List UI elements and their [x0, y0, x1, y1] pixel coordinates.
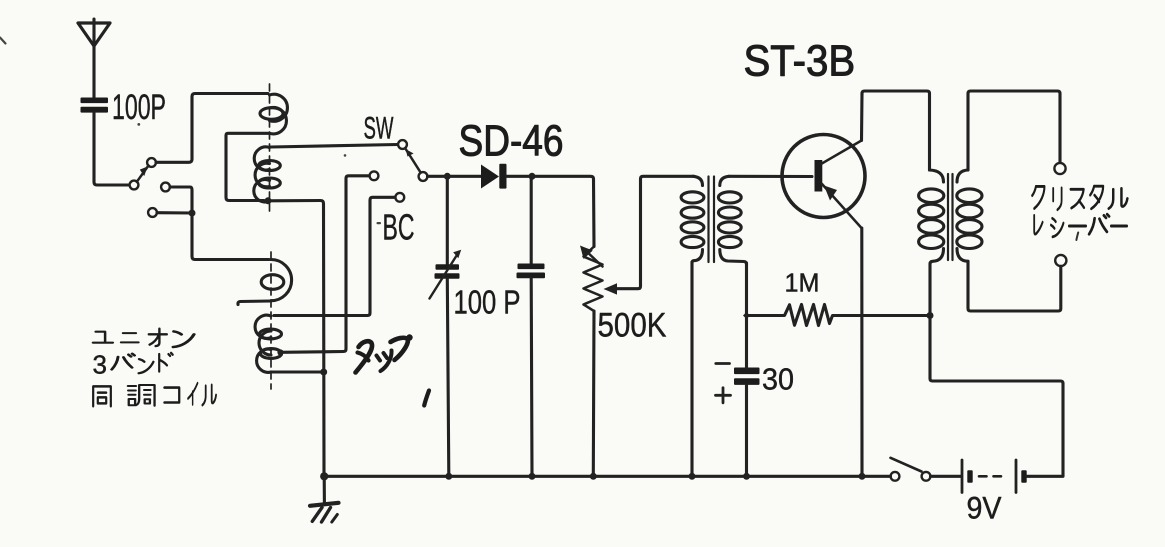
coil L1 lower winding [254, 147, 281, 202]
receiver jack terminal top [1054, 163, 1065, 174]
wire L2 open stub [238, 301, 271, 305]
wire T2 primary bottom to battery branch [930, 316, 1063, 476]
transformer T1 core [709, 177, 715, 263]
coil L2 lower winding [255, 315, 282, 372]
wire c1 to L1 top [156, 94, 268, 163]
coil L2 upper winding [261, 260, 291, 301]
wire L2 bottom to ground column [271, 370, 324, 373]
wire switch to battery [931, 475, 961, 478]
antenna [78, 19, 110, 46]
node rail emitter [859, 473, 866, 480]
power switch arm [891, 458, 922, 472]
node rail C3 [743, 473, 750, 480]
svg-text:3: 3 [93, 350, 107, 380]
svg-text:100P: 100P [112, 88, 166, 127]
wire L1 loopA exit to bypass [226, 133, 270, 200]
band switch pivot [130, 181, 139, 190]
ground [310, 476, 339, 522]
wire 500K wiper to T1 primary [604, 176, 695, 294]
switch SW pivot [419, 172, 428, 181]
resistor R1 1M [747, 305, 929, 326]
label coil line3 (tuning coil) [93, 383, 216, 406]
node rail VC1 [445, 473, 452, 480]
node ground column / L2 bottom [320, 369, 327, 376]
coil L2 axis (dashed) [270, 252, 272, 389]
capacitor C1 100P [81, 98, 109, 113]
node L1 bottom junction [265, 197, 272, 204]
wire C1 to band switch pivot [94, 113, 129, 185]
switch SW contact [398, 140, 407, 149]
node rail C2 [529, 473, 536, 480]
label crystal receiver line1 [1032, 186, 1127, 210]
diode D1 SD-46 [481, 164, 507, 189]
svg-text:BC: BC [383, 209, 415, 248]
wire T1 secondary top to base [729, 175, 812, 178]
BC contact c1 [370, 171, 379, 180]
wire L2 top to BC contact c2 [274, 197, 395, 315]
wire junction to L2 top [192, 213, 269, 260]
capacitor C2 (fixed) [517, 176, 546, 474]
transformer T2 primary [919, 170, 944, 316]
svg-text:500K: 500K [598, 305, 667, 344]
band switch contact c1 [147, 158, 156, 167]
bottom rail [324, 475, 890, 478]
svg-text:ST-3B: ST-3B [744, 36, 856, 85]
svg-text:30: 30 [762, 363, 794, 397]
receiver jack terminal bottom [1055, 255, 1066, 266]
wire L1 tap to SW contact [271, 145, 398, 148]
wire T1 secondary bottom to node [745, 263, 748, 316]
band switch arm [137, 166, 149, 182]
label tap (handwritten) [356, 334, 430, 405]
wire antenna to C1 [92, 46, 95, 97]
wire L1 bottom to ground column [268, 201, 324, 475]
wire SW pivot to node [428, 175, 448, 178]
node L2 tap [277, 349, 283, 355]
svg-text:1M: 1M [785, 269, 820, 297]
node 1M / T2 primary bottom [927, 312, 934, 319]
wire emitter to rail [860, 228, 863, 474]
variable capacitor VC1 [430, 176, 462, 474]
label coil line1 (Union) [93, 329, 194, 347]
band switch contact c3 [148, 208, 157, 217]
switch SW arm [406, 149, 421, 172]
svg-text:100 P: 100 P [454, 284, 521, 321]
power switch contact b [922, 472, 931, 481]
svg-text:9V: 9V [967, 491, 1002, 526]
wire T2 secondary top to jack [968, 91, 1060, 170]
transistor Q1 ST-3B [782, 135, 865, 229]
node diode anode [444, 173, 451, 180]
power switch contact a [891, 472, 900, 481]
wire collector to T2 primary [862, 91, 930, 170]
battery B1 9V [962, 460, 1063, 493]
label crystal receiver line2 [1034, 214, 1127, 237]
label coil line2 (3 band) [112, 353, 173, 373]
receiver comma mark [1076, 233, 1078, 241]
transformer T1 primary [681, 176, 704, 263]
wire c2 down [170, 187, 192, 213]
svg-text:SD-46: SD-46 [459, 116, 564, 166]
node c2/c3 junction [189, 210, 196, 217]
band switch contact c2 [161, 183, 170, 192]
svg-text:SW: SW [364, 112, 394, 146]
capacitor C3 30uF [716, 316, 760, 475]
scan specks [137, 123, 381, 224]
wire T1 primary bottom to rail [690, 262, 693, 474]
BC contact c2 [395, 193, 404, 202]
wire node to diode [447, 175, 481, 178]
coil L1 axis (dashed) [269, 84, 271, 216]
wire L2 tap to BC contact c1 [281, 176, 370, 352]
transformer T1 secondary [718, 176, 746, 264]
wire diode to node2 [507, 175, 532, 178]
wire jack bottom to T2 secondary [968, 261, 1061, 311]
transformer T2 secondary [957, 170, 982, 261]
wire 500K bottom to rail [592, 311, 596, 474]
wire c3 to junction [157, 211, 192, 214]
wire node2 to 500K top [532, 176, 594, 246]
node diode cathode [529, 173, 536, 180]
coil L1 upper winding [260, 94, 287, 134]
node base-bias junction [743, 312, 750, 319]
edge mark [0, 38, 6, 44]
node rail ground [320, 472, 328, 480]
node rail 500K [590, 473, 597, 480]
potentiometer 500K [580, 246, 603, 312]
transformer T2 core [948, 174, 953, 260]
node rail T1 [689, 473, 696, 480]
